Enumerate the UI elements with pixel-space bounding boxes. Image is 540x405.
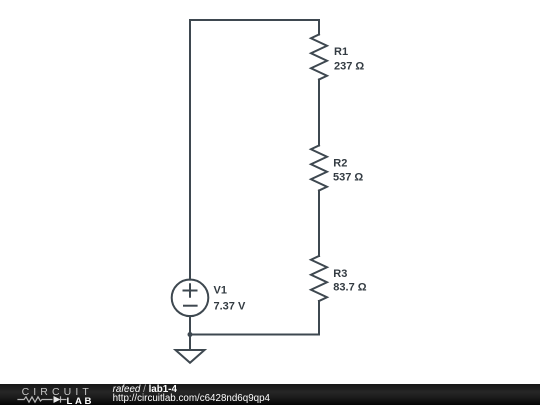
node junction dot xyxy=(188,332,193,337)
svg-text:83.7 Ω: 83.7 Ω xyxy=(333,282,366,294)
wire R2 to R3 xyxy=(318,191,320,257)
wire R1 to R2 xyxy=(318,80,320,146)
wire top rail xyxy=(190,19,319,21)
logo resistor squiggle and diode xyxy=(17,396,66,402)
resistor R2 xyxy=(311,146,327,191)
wire right vertical top (rail to R1) xyxy=(318,20,320,35)
wire R3 to bottom rail xyxy=(318,301,320,335)
resistor R3 xyxy=(311,256,327,301)
V1 minus sign xyxy=(184,305,197,307)
footer title line xyxy=(113,384,177,395)
svg-text:537 Ω: 537 Ω xyxy=(333,172,363,184)
wire V1 bottom to ground xyxy=(189,316,191,350)
V1 plus sign xyxy=(184,284,197,297)
svg-text:R1: R1 xyxy=(334,46,348,58)
logo diode triangle xyxy=(54,396,61,403)
wire bottom rail xyxy=(190,334,319,336)
svg-text:R2: R2 xyxy=(333,158,347,170)
svg-text:237 Ω: 237 Ω xyxy=(334,61,364,73)
resistor R1 xyxy=(311,35,327,80)
svg-text:V1: V1 xyxy=(214,285,227,297)
svg-text:R3: R3 xyxy=(333,268,347,280)
svg-text:7.37 V: 7.37 V xyxy=(214,301,246,313)
wire left vertical (top rail to V1 top) xyxy=(189,20,191,280)
voltage source V1 body xyxy=(172,280,209,317)
ground xyxy=(176,350,205,363)
CircuitLab logo wordmark xyxy=(0,384,110,405)
svg-text:LAB: LAB xyxy=(67,396,95,405)
footer bar xyxy=(0,384,540,405)
footer url line xyxy=(113,393,270,404)
